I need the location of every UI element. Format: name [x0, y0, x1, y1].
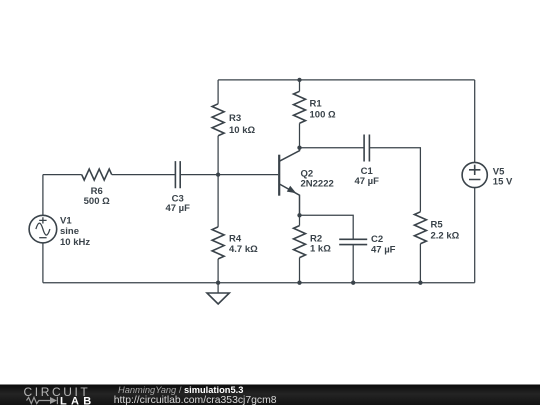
svg-text:sine: sine — [60, 226, 79, 237]
svg-text:2.2 kΩ: 2.2 kΩ — [431, 230, 460, 241]
wire R2 to bottom rail — [299, 258, 301, 283]
svg-text:15 V: 15 V — [493, 177, 513, 188]
resistor R6 — [82, 169, 112, 180]
wire R6 to C3 — [112, 174, 176, 176]
voltage source V1 — [29, 215, 57, 243]
wire R1 to collector node — [299, 123, 301, 147]
node base — [216, 172, 220, 176]
wire V5 column top — [474, 80, 476, 162]
svg-text:10 kHz: 10 kHz — [60, 237, 90, 248]
resistor R4 — [212, 227, 224, 259]
capacitor C1 — [364, 135, 369, 162]
resistor R5 — [414, 212, 426, 244]
node R2 bottom — [297, 281, 301, 285]
wire C2 to bottom rail — [352, 245, 354, 283]
voltage source V5 — [462, 162, 487, 187]
svg-text:500 Ω: 500 Ω — [84, 196, 110, 207]
svg-text:R5: R5 — [431, 219, 444, 230]
node top rail R1 junction — [297, 78, 301, 82]
capacitor C2 — [339, 239, 367, 244]
logo waveform and diode glyph — [27, 397, 58, 404]
wire R4 to bottom rail — [217, 259, 219, 283]
transistor Q2 — [279, 148, 299, 216]
wire input left segment — [43, 174, 82, 176]
wire emitter node to C2 — [300, 215, 354, 239]
resistor R2 — [294, 226, 306, 258]
svg-text:10 kΩ: 10 kΩ — [229, 125, 255, 136]
svg-text:C2: C2 — [371, 234, 383, 245]
wire collector to C1 — [300, 147, 365, 149]
wire V5 column bottom — [474, 188, 476, 283]
wire ground stub — [217, 283, 219, 293]
wire left column top — [42, 175, 44, 216]
wire R5 to bottom rail — [419, 244, 421, 283]
svg-text:R3: R3 — [229, 113, 241, 124]
svg-text:V1: V1 — [60, 215, 72, 226]
svg-text:100 Ω: 100 Ω — [310, 109, 336, 120]
node collector — [297, 146, 301, 150]
footer bar — [0, 385, 540, 405]
wire R4 column top — [217, 175, 219, 227]
node C2 bottom — [351, 281, 355, 285]
wire R3 to base node — [217, 136, 219, 175]
node R5 bottom — [418, 281, 422, 285]
resistor R1 — [294, 91, 306, 123]
svg-text:HanmingYang / simulation5.3: HanmingYang / simulation5.3 — [118, 385, 243, 395]
node emitter — [297, 213, 301, 217]
svg-text:R1: R1 — [310, 98, 323, 109]
svg-text:2N2222: 2N2222 — [301, 178, 334, 189]
resistor R3 — [212, 104, 224, 136]
svg-text:http://circuitlab.com/cra353cj: http://circuitlab.com/cra353cj7gcm8 — [114, 395, 277, 405]
wire left column bottom — [42, 243, 44, 283]
wire C3 to base node — [180, 174, 218, 176]
svg-text:R4: R4 — [229, 233, 242, 244]
wire top rail — [218, 79, 475, 81]
wire C1 to R5 column — [369, 148, 420, 212]
capacitor C3 — [175, 161, 180, 188]
wire emitter node to R2 — [299, 215, 301, 225]
node ground rail — [216, 281, 220, 285]
wire bottom rail — [43, 282, 475, 284]
svg-text:47 µF: 47 µF — [371, 244, 396, 255]
wire R1 column top — [299, 80, 301, 91]
wire R3 column top — [217, 80, 219, 104]
ground — [207, 293, 229, 304]
svg-text:47 µF: 47 µF — [165, 203, 190, 214]
svg-text:1 kΩ: 1 kΩ — [310, 244, 331, 255]
svg-text:47 µF: 47 µF — [354, 176, 379, 187]
svg-text:4.7 kΩ: 4.7 kΩ — [229, 244, 258, 255]
wire base node to Q2 base — [218, 174, 278, 176]
svg-text:LAB: LAB — [60, 395, 96, 405]
